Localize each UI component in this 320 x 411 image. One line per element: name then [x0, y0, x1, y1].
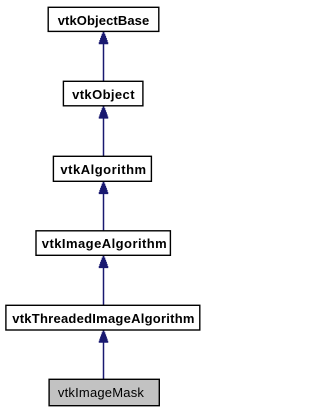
node box vtkObject — [63, 81, 142, 106]
inheritance arrow: vtkThreadedImageAlgorithm to vtkImageAlgorithm — [99, 256, 109, 306]
inheritance arrow: vtkObject to vtkObjectBase — [99, 32, 109, 81]
inheritance arrow: vtkImageAlgorithm to vtkAlgorithm — [99, 182, 109, 231]
inheritance arrow: vtkAlgorithm to vtkObject — [99, 106, 109, 156]
node box vtkAlgorithm — [53, 156, 151, 181]
node box vtkObjectBase — [48, 7, 159, 31]
label vtkObjectBase — [47, 6, 160, 32]
label vtkImageAlgorithm — [36, 230, 172, 256]
node box vtkImageMask (current class, grey fill) — [49, 379, 159, 405]
inheritance arrow: vtkImageMask to vtkThreadedImageAlgorithm — [99, 330, 109, 379]
label vtkImageMask — [48, 378, 160, 406]
node box vtkImageAlgorithm — [36, 231, 170, 256]
label vtkThreadedImageAlgorithm — [6, 304, 201, 330]
label vtkObject — [63, 80, 144, 106]
label vtkAlgorithm — [54, 155, 154, 181]
node box vtkThreadedImageAlgorithm — [6, 305, 200, 330]
